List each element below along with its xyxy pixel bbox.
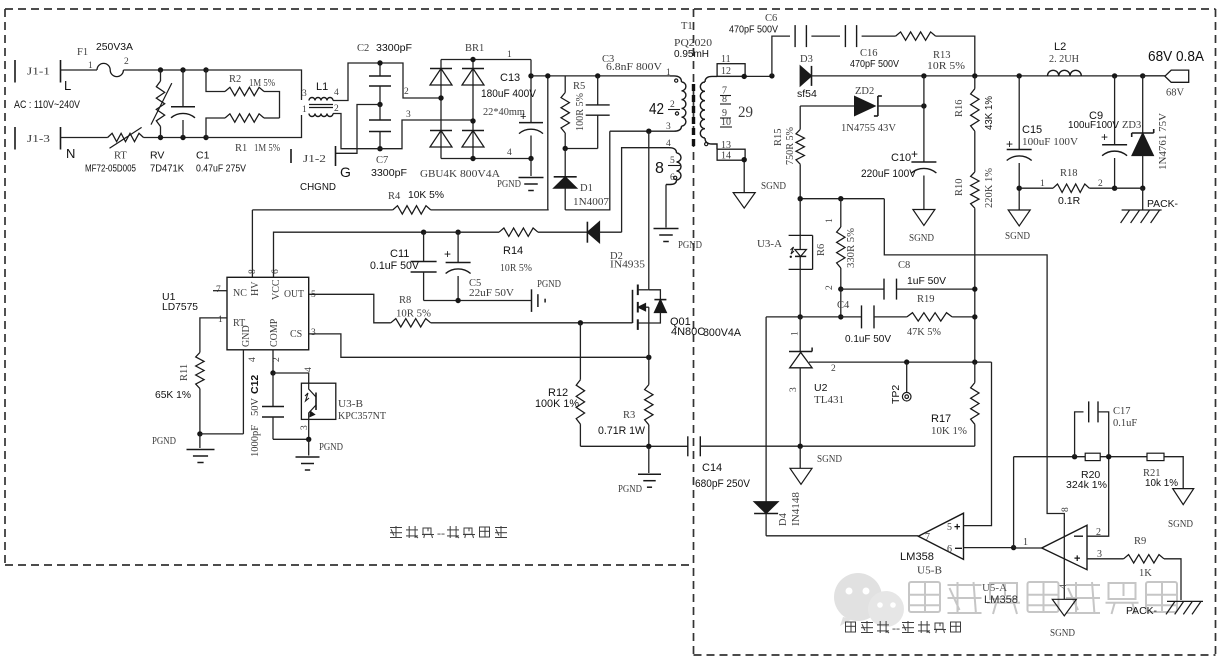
svg-text:SGND: SGND <box>761 181 786 192</box>
svg-text:680pF 250V: 680pF 250V <box>695 478 751 490</box>
svg-text:TP2: TP2 <box>890 385 902 404</box>
svg-text:324k 1%: 324k 1% <box>1066 479 1107 491</box>
wire secondary bottom to SGND <box>742 157 747 193</box>
svg-text:+: + <box>1074 553 1080 565</box>
diode D2 <box>587 222 645 271</box>
svg-text:F1: F1 <box>77 47 88 58</box>
svg-text:470pF 500V: 470pF 500V <box>729 24 778 36</box>
svg-text:13: 13 <box>721 140 731 151</box>
svg-text:C14: C14 <box>702 462 722 474</box>
svg-text:0.1R: 0.1R <box>1058 195 1081 207</box>
watermark wechat logo <box>834 573 904 627</box>
svg-text:R5: R5 <box>573 81 585 92</box>
resistor R6 <box>816 199 857 290</box>
svg-text:100K 1%: 100K 1% <box>535 398 579 410</box>
label secondary region <box>846 621 961 635</box>
ground PGND under R3 <box>618 446 661 495</box>
svg-text:5: 5 <box>670 156 675 166</box>
svg-text:8: 8 <box>248 269 258 274</box>
capacitor C8 <box>838 260 977 300</box>
svg-text:330R 5%: 330R 5% <box>846 228 857 268</box>
optocoupler U3-B <box>273 367 387 439</box>
svg-text:1M 5%: 1M 5% <box>249 78 275 89</box>
resistor R12 <box>535 323 585 447</box>
svg-text:1: 1 <box>791 331 801 336</box>
node L-rail junctions <box>158 67 209 72</box>
svg-text:+: + <box>520 111 526 123</box>
svg-text:800V4A: 800V4A <box>460 169 500 180</box>
capacitor C17 <box>1075 401 1138 456</box>
svg-text:C6: C6 <box>765 13 777 24</box>
svg-text:68V: 68V <box>1166 88 1185 99</box>
wire D1 anode to drain node <box>565 131 610 210</box>
wire aux pin4 to D2 <box>622 148 660 233</box>
svg-text:C17: C17 <box>1113 406 1131 417</box>
capacitor C7 <box>369 105 407 180</box>
svg-text:+: + <box>1006 137 1013 151</box>
svg-text:C4: C4 <box>837 300 850 311</box>
capacitor C10 <box>861 106 936 210</box>
svg-text:10R 5%: 10R 5% <box>396 309 431 320</box>
wire secondary top to rail <box>717 74 772 79</box>
svg-text:0.71R 1W: 0.71R 1W <box>598 425 646 437</box>
startup resistor R4 <box>252 189 548 214</box>
transformer T1 aux winding <box>655 139 681 185</box>
svg-text:HV: HV <box>250 281 261 296</box>
svg-text:R2: R2 <box>229 74 241 85</box>
node gate/R12 <box>578 320 583 325</box>
MOSFET Q01 <box>633 285 742 358</box>
svg-text:T1: T1 <box>681 21 693 32</box>
svg-text:C11: C11 <box>390 248 409 260</box>
svg-text:+: + <box>954 522 960 534</box>
svg-text:R18: R18 <box>1060 168 1078 179</box>
svg-text:OUT: OUT <box>284 289 304 300</box>
output row to PACK- <box>1115 188 1143 209</box>
svg-text:220uF 100V: 220uF 100V <box>861 168 917 180</box>
resistor R11 <box>155 318 227 434</box>
secondary winding pins 11/12 <box>717 54 745 77</box>
svg-text:PQ2020: PQ2020 <box>674 38 712 49</box>
svg-text:1000pF: 1000pF <box>250 425 261 457</box>
resistor R2 <box>206 70 280 118</box>
svg-text:J1-2: J1-2 <box>303 154 326 165</box>
svg-text:AC : 110V~240V: AC : 110V~240V <box>14 99 81 111</box>
svg-text:KPC357NT: KPC357NT <box>338 411 387 422</box>
svg-text:MF72-05D005: MF72-05D005 <box>85 164 136 175</box>
wire U5-B pin6 to U5-A out <box>964 545 1017 550</box>
output tag 68V <box>1143 49 1205 99</box>
svg-text:PGND: PGND <box>152 436 176 447</box>
ground SGND under U5-A <box>1050 599 1076 639</box>
svg-text:180uF 400V: 180uF 400V <box>481 88 537 100</box>
ground SGND under C10 <box>909 210 935 245</box>
sense resistor R3 <box>598 357 653 446</box>
transformer core dashed bar <box>692 84 695 148</box>
capacitor C16 <box>845 25 899 70</box>
test point TP2 <box>890 362 911 404</box>
svg-text:ZD2: ZD2 <box>855 86 874 97</box>
svg-text:D4: D4 <box>778 512 789 526</box>
capacitor C1 <box>171 70 246 175</box>
secondary winding pins 13/14 <box>717 140 745 162</box>
svg-text:N: N <box>66 146 75 161</box>
svg-text:--: -- <box>437 526 445 540</box>
wire J1-3 to RT <box>61 137 108 139</box>
svg-text:3: 3 <box>302 89 307 99</box>
svg-text:6.8nF 800V: 6.8nF 800V <box>606 62 662 73</box>
svg-text:R14: R14 <box>503 245 523 257</box>
feedback node vertical <box>1013 457 1015 548</box>
capacitor C13 bulk <box>481 60 543 159</box>
svg-text:1: 1 <box>1040 179 1045 189</box>
resistor R17 <box>931 362 979 446</box>
svg-text:PGND: PGND <box>618 484 642 495</box>
wire D4 to U5-B output <box>766 535 918 537</box>
svg-text:4N80C: 4N80C <box>671 326 705 338</box>
wire snubber node <box>563 146 598 151</box>
svg-text:22*40mm: 22*40mm <box>483 107 525 118</box>
connector J1-3 <box>15 127 75 161</box>
svg-text:1M 5%: 1M 5% <box>254 143 280 154</box>
svg-text:IN4148: IN4148 <box>791 492 802 526</box>
ground SGND secondary <box>733 181 786 208</box>
svg-text:RV: RV <box>150 150 164 162</box>
region border: left box left edge <box>4 9 6 565</box>
resistor R16 <box>954 76 995 131</box>
snubber loop C6 <box>729 13 840 76</box>
svg-text:R15: R15 <box>773 128 784 146</box>
transformer T1 labels <box>674 21 712 60</box>
svg-text:R16: R16 <box>954 99 965 117</box>
wire midpoint to J1-2 <box>336 105 381 154</box>
capacitor C11 <box>370 230 437 301</box>
svg-text:0.1uF: 0.1uF <box>1113 418 1137 429</box>
svg-text:J1-1: J1-1 <box>27 67 50 78</box>
wire primary pin3 row <box>610 129 670 134</box>
node N-rail junctions <box>158 135 209 140</box>
svg-text:C2: C2 <box>357 43 369 54</box>
svg-text:47K 5%: 47K 5% <box>907 327 941 338</box>
svg-text:7D471K: 7D471K <box>150 164 184 175</box>
svg-text:R4: R4 <box>388 191 401 202</box>
svg-text:SGND: SGND <box>1168 519 1193 530</box>
svg-text:1: 1 <box>218 315 223 325</box>
wire U2 ref row <box>809 359 992 364</box>
svg-text:2: 2 <box>670 100 675 110</box>
svg-text:10k 1%: 10k 1% <box>1145 477 1178 489</box>
svg-text:U5-B: U5-B <box>917 566 942 577</box>
diode D4 <box>754 317 802 536</box>
svg-text:R17: R17 <box>931 413 951 425</box>
svg-text:R1: R1 <box>235 143 247 154</box>
svg-text:12: 12 <box>721 66 731 77</box>
region border: isolation divider (vertical dashed) <box>693 9 695 655</box>
zener ZD2 <box>800 76 926 134</box>
secondary rail after D3 <box>812 73 1165 78</box>
svg-text:4: 4 <box>248 357 258 362</box>
op-amp U5-B <box>900 513 964 576</box>
svg-text:10R 5%: 10R 5% <box>500 263 532 274</box>
ground PGND aux <box>654 229 703 252</box>
VCC rail <box>274 232 424 277</box>
node C2/C7 midpoint <box>377 60 382 107</box>
varistor RV <box>150 70 184 175</box>
svg-text:3: 3 <box>789 387 799 392</box>
svg-text:0.95mH: 0.95mH <box>674 49 709 60</box>
transformer T1 primary winding <box>649 68 686 132</box>
zener ZD3 <box>1122 76 1169 191</box>
svg-text:11: 11 <box>721 54 731 65</box>
connector J1-2 <box>291 146 351 193</box>
svg-text:C15: C15 <box>1022 124 1042 136</box>
svg-text:8: 8 <box>655 160 664 177</box>
resistor R15 <box>773 106 804 199</box>
svg-text:42: 42 <box>649 101 664 118</box>
svg-text:4: 4 <box>1059 584 1069 589</box>
shunt regulator U2 TL431 <box>789 317 844 446</box>
resistor R9 <box>1087 536 1181 600</box>
wire aux pin6 to ground <box>665 185 667 228</box>
svg-text:1N4761 75V: 1N4761 75V <box>1158 113 1169 170</box>
svg-text:C12: C12 <box>249 375 261 394</box>
svg-text:--: -- <box>892 621 900 635</box>
wire U5-A pin2 feedback <box>1087 457 1109 537</box>
svg-text:750R 5%: 750R 5% <box>785 127 796 165</box>
ground SGND under C15 <box>1005 210 1030 242</box>
svg-text:6: 6 <box>271 269 281 274</box>
gate drive resistor R8 <box>309 294 633 327</box>
svg-text:1: 1 <box>666 68 671 78</box>
region border: outer dashed frame top edge <box>5 8 1216 10</box>
svg-text:7: 7 <box>925 532 930 543</box>
svg-text:U5-A: U5-A <box>982 583 1007 594</box>
capacitor C9 <box>1068 76 1127 191</box>
svg-text:R19: R19 <box>917 294 935 305</box>
svg-text:L2: L2 <box>1054 41 1066 53</box>
svg-text:4: 4 <box>666 139 671 149</box>
region border: right box right edge <box>1215 9 1217 655</box>
svg-text:250V3A: 250V3A <box>96 41 133 53</box>
capacitor C15 <box>1006 76 1078 210</box>
node C6 tap <box>769 73 774 78</box>
svg-text:R6: R6 <box>816 244 827 256</box>
svg-text:0.1uF 50V: 0.1uF 50V <box>845 333 891 345</box>
svg-text:2: 2 <box>124 57 129 67</box>
region border: right box bottom edge <box>694 654 1216 656</box>
svg-text:SGND: SGND <box>909 233 934 244</box>
svg-text:5: 5 <box>311 290 316 300</box>
wire U5-B pin5 <box>964 362 992 525</box>
svg-text:LM358: LM358 <box>984 594 1018 606</box>
svg-text:2. 2UH: 2. 2UH <box>1049 54 1079 65</box>
svg-text:R9: R9 <box>1134 536 1146 547</box>
wire F1 to node <box>123 69 206 71</box>
resistor R10 <box>954 131 995 362</box>
svg-text:4: 4 <box>507 148 512 158</box>
svg-text:C10: C10 <box>891 152 911 164</box>
svg-text:0.1uF 50V: 0.1uF 50V <box>370 260 420 272</box>
snubber resistor R5 <box>561 76 586 149</box>
node R11/GND <box>197 431 243 436</box>
current sense wire CS <box>309 334 652 360</box>
svg-text:100uF 100V: 100uF 100V <box>1022 136 1078 148</box>
svg-text:1: 1 <box>1023 537 1028 548</box>
svg-text:VCC: VCC <box>271 279 282 300</box>
resistor R14 <box>499 228 587 274</box>
svg-text:C1: C1 <box>196 150 210 162</box>
output diode D3 <box>797 54 817 100</box>
svg-text:PGND: PGND <box>497 179 521 190</box>
svg-text:10R 5%: 10R 5% <box>927 61 965 72</box>
svg-text:U2: U2 <box>814 382 828 394</box>
vertical rail-to-HV feed <box>545 73 550 210</box>
svg-text:C13: C13 <box>500 72 520 84</box>
svg-text:4: 4 <box>334 88 339 98</box>
svg-text:PGND: PGND <box>537 279 561 290</box>
svg-text:3: 3 <box>406 110 411 120</box>
node C12/opto emitter <box>273 437 311 442</box>
svg-text:65K 1%: 65K 1% <box>155 389 191 401</box>
svg-text:NC: NC <box>233 288 247 299</box>
wire HV pin8 <box>251 210 253 277</box>
svg-text:43K 1%: 43K 1% <box>983 96 995 130</box>
svg-text:22uF 50V: 22uF 50V <box>469 288 514 299</box>
svg-text:0.47uF 275V: 0.47uF 275V <box>196 164 246 175</box>
wire C11/C5 ground row <box>424 298 532 303</box>
svg-text:R3: R3 <box>623 410 635 421</box>
capacitor C5 <box>424 230 515 301</box>
integrator row R20 R21 <box>1014 453 1184 491</box>
svg-text:3300pF: 3300pF <box>376 42 412 54</box>
node C13 top/bottom <box>528 73 533 161</box>
svg-text:7: 7 <box>216 285 221 295</box>
op-amp U5-A <box>982 507 1102 606</box>
ground PGND sideways <box>532 279 562 312</box>
svg-text:IN4935: IN4935 <box>610 260 645 271</box>
svg-text:2: 2 <box>1098 179 1103 189</box>
capacitor C12 <box>249 350 284 457</box>
ground PGND under R11 <box>152 434 215 463</box>
chassis ground PACK- op-amp <box>1126 601 1203 617</box>
svg-text:6: 6 <box>670 173 675 183</box>
svg-text:1K: 1K <box>1139 568 1152 579</box>
wire L1 pin2 to bottom rail to bridge in- <box>333 110 473 149</box>
svg-text:68V 0.8A: 68V 0.8A <box>1148 49 1204 65</box>
svg-text:SGND: SGND <box>1050 628 1075 639</box>
svg-text:COMP: COMP <box>269 318 280 347</box>
wire L1 pin4 to top rail <box>333 63 380 101</box>
wire N node to L1 pin1 <box>206 115 302 138</box>
ground SGND under U2 <box>790 446 842 484</box>
thermistor RT <box>85 127 144 174</box>
svg-text:1uF 50V: 1uF 50V <box>907 275 946 287</box>
resistor R13 <box>896 32 975 76</box>
svg-text:SGND: SGND <box>1005 231 1030 242</box>
svg-text:CHGND: CHGND <box>300 181 336 193</box>
svg-text:470pF 500V: 470pF 500V <box>850 58 899 70</box>
svg-text:8: 8 <box>722 94 727 105</box>
node C7 bottom <box>377 146 382 151</box>
svg-text:PACK-: PACK- <box>1147 198 1178 210</box>
common-mode choke L1 <box>302 81 339 117</box>
ground SGND under R21 <box>1168 489 1194 530</box>
svg-text:+: + <box>911 147 918 161</box>
opto supply row <box>798 196 1065 599</box>
svg-text:8: 8 <box>1061 507 1071 512</box>
clamp diode D1 <box>554 149 609 210</box>
resistor R1 <box>206 114 280 154</box>
ground PGND under U3-B <box>296 439 344 470</box>
svg-text:PGND: PGND <box>319 442 343 453</box>
wire J1-1 to F1 <box>61 69 98 71</box>
svg-text:10K 1%: 10K 1% <box>931 426 967 437</box>
svg-text:4: 4 <box>304 367 314 372</box>
wire drain vertical <box>648 131 650 290</box>
svg-text:3: 3 <box>311 328 316 338</box>
wire top rail to bridge in+ <box>380 63 441 98</box>
svg-text:C7: C7 <box>376 155 388 166</box>
svg-text:6: 6 <box>947 544 952 555</box>
snubber capacitor C3 <box>586 54 663 149</box>
svg-text:1: 1 <box>507 50 512 60</box>
svg-text:PGND: PGND <box>678 240 702 251</box>
transformer T1 secondary winding <box>700 76 717 149</box>
svg-text:800V4A: 800V4A <box>703 327 742 339</box>
IC U1 LD7575 <box>162 269 316 362</box>
isolation capacitor C14 and SGND rail <box>580 436 974 490</box>
svg-text:1: 1 <box>88 61 93 71</box>
svg-text:sf54: sf54 <box>797 88 817 100</box>
fuse F1 <box>77 41 133 77</box>
svg-text:100R 5%: 100R 5% <box>575 93 586 131</box>
svg-text:R10: R10 <box>954 178 965 196</box>
svg-text:1N4007: 1N4007 <box>573 197 609 208</box>
inductor L2 <box>1048 41 1082 76</box>
svg-text:BR1: BR1 <box>465 43 484 54</box>
svg-text:2: 2 <box>831 364 836 374</box>
svg-text:D1: D1 <box>580 183 593 194</box>
svg-text:D3: D3 <box>800 54 813 65</box>
svg-text:L1: L1 <box>316 81 328 93</box>
svg-text:GBU4K: GBU4K <box>420 169 457 180</box>
connector J1-1 <box>15 60 71 93</box>
svg-text:SGND: SGND <box>817 454 842 465</box>
svg-text:2: 2 <box>404 87 409 97</box>
svg-text:3: 3 <box>666 122 671 132</box>
svg-text:5: 5 <box>947 522 952 533</box>
wire U1 GND pin4 <box>242 350 244 434</box>
svg-text:100uF100V: 100uF100V <box>1068 119 1119 131</box>
svg-text:J1-3: J1-3 <box>27 134 50 145</box>
svg-text:2: 2 <box>334 104 339 114</box>
ground PGND under bridge <box>497 159 544 191</box>
svg-text:50V: 50V <box>250 398 261 417</box>
bridge rectifier BR1 <box>420 43 531 180</box>
main DC+ rail <box>531 75 670 77</box>
svg-text:R13: R13 <box>933 50 951 61</box>
watermark text <box>909 582 1177 614</box>
svg-text:1N4755 43V: 1N4755 43V <box>841 123 896 134</box>
svg-text:LD7575: LD7575 <box>162 301 198 313</box>
svg-text:R11: R11 <box>179 364 190 381</box>
capacitor C4 and resistor R19 <box>766 289 977 345</box>
svg-text:14: 14 <box>721 151 731 162</box>
svg-text:TL431: TL431 <box>814 395 844 406</box>
svg-text:29: 29 <box>738 104 753 121</box>
wire L node to L1 pin3 <box>206 70 302 100</box>
capacitor C2 <box>357 42 412 105</box>
